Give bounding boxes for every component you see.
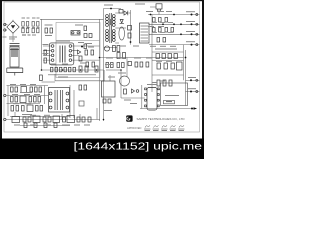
svg-text:APPROVED: APPROVED [127, 126, 142, 130]
svg-text:[1644x1152] upic.me: [1644x1152] upic.me [74, 142, 203, 153]
svg-text:SAMPO TECHNOLOGIES CO., LTD: SAMPO TECHNOLOGIES CO., LTD [137, 117, 186, 121]
